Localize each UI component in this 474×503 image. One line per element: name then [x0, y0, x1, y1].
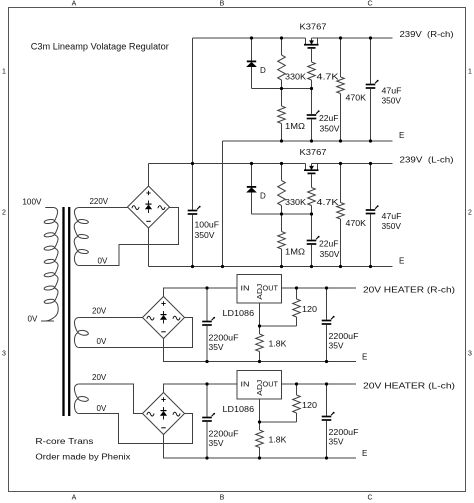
label 47uF 350V [382, 212, 402, 231]
resistor 120 (OUT to ADJ) [293, 288, 301, 326]
svg-text:470K: 470K [346, 94, 367, 103]
svg-text:IN: IN [241, 284, 250, 293]
resistor 470K [337, 38, 345, 141]
svg-text:D: D [260, 192, 266, 201]
svg-text:120: 120 [302, 401, 318, 410]
label 22uF 350V [319, 114, 340, 134]
svg-text:350V: 350V [382, 222, 402, 231]
svg-text:B: B [220, 495, 225, 502]
svg-text:E: E [399, 131, 404, 140]
node 239V (R-ch) rail (top, y=38) [193, 37, 393, 39]
svg-text:100uF: 100uF [195, 221, 220, 230]
svg-text:330K: 330K [285, 198, 307, 207]
svg-text:A: A [72, 1, 77, 8]
wire gate divider node [252, 213, 312, 215]
svg-text:1MΩ: 1MΩ [285, 122, 305, 131]
svg-text:1MΩ: 1MΩ [285, 248, 305, 257]
junction dots [250, 36, 372, 142]
label 2200uF 35V (output) [329, 332, 359, 351]
capacitor 2200uF 35V output (R-ch heater) [322, 288, 335, 362]
bridge rectifier heater L-ch [143, 393, 185, 435]
wire E drop from R-ch section to ground rail [222, 141, 224, 267]
svg-text:120: 120 [302, 305, 318, 314]
transformer core [64, 207, 70, 416]
svg-text:1.8K: 1.8K [269, 340, 288, 349]
junction dots (heater section) [205, 382, 328, 459]
svg-text:0V: 0V [97, 404, 107, 413]
label 2200uF 35V (output) [329, 428, 359, 447]
svg-text:0V: 0V [98, 257, 108, 266]
transformer secondary 20V winding (R-ch heater) [74, 318, 88, 348]
wire 20V lead into bridge (R heater) [78, 317, 142, 319]
svg-text:C: C [367, 1, 372, 8]
svg-text:OUT: OUT [263, 284, 279, 293]
svg-text:2: 2 [2, 210, 6, 217]
transformer secondary 20V winding (L-ch heater) [74, 384, 88, 414]
resistor 330K [278, 164, 286, 215]
capacitor 22uF 350V [307, 89, 320, 142]
node 239V (L-ch) rail (top, y=163.5) [149, 163, 393, 165]
wire 220V 0V return to bridge B1 right vertex [78, 208, 178, 266]
svg-text:Order made by Phenix: Order made by Phenix [35, 452, 130, 461]
svg-text:1.8K: 1.8K [269, 436, 288, 445]
svg-text:350V: 350V [320, 125, 341, 134]
wire ADJ node to 120 resistor [260, 325, 297, 327]
resistor 1M&#937; [278, 214, 286, 267]
svg-text:2200uF: 2200uF [329, 332, 359, 341]
wire gate divider node [252, 88, 312, 90]
svg-text:4.7K: 4.7K [317, 198, 340, 207]
capacitor 2200uF 35V input (L-ch heater) [202, 384, 215, 458]
svg-text:LD1086: LD1086 [223, 309, 255, 318]
svg-text:350V: 350V [320, 250, 341, 259]
label 2200uF 35V (input) [209, 430, 239, 449]
svg-text:4.7K: 4.7K [317, 73, 340, 82]
resistor 1.8K (ADJ to E) [256, 422, 264, 458]
svg-text:3: 3 [468, 351, 472, 358]
capacitor 2200uF 35V output (L-ch heater) [322, 384, 335, 458]
capacitor 47uF 350V [366, 164, 379, 267]
transformer secondary 220V winding [74, 208, 88, 266]
label 2200uF 35V (input) [209, 334, 239, 353]
capacitor 100uF 350V reservoir [188, 164, 201, 267]
svg-text:239V (L-ch): 239V (L-ch) [400, 156, 454, 165]
svg-text:E: E [362, 353, 367, 362]
svg-text:C: C [367, 495, 372, 502]
svg-text:K3767: K3767 [300, 23, 328, 32]
svg-text:2200uF: 2200uF [209, 430, 239, 439]
transformer primary winding 100V-0V [41, 208, 58, 322]
resistor 4.7K (gate) [308, 188, 316, 215]
bridge rectifier heater R-ch [143, 297, 185, 339]
svg-text:350V: 350V [195, 231, 216, 240]
wire 20V lead into bridge (L heater) [78, 384, 142, 414]
wire heater ground rail (R-ch) [164, 339, 357, 362]
svg-text:0V: 0V [97, 337, 107, 346]
transistor Q K3767 (N-ch MOSFET, series pass) [304, 38, 319, 62]
wire 220V lead to bridge [78, 207, 127, 209]
svg-text:20V HEATER (L-ch): 20V HEATER (L-ch) [363, 382, 455, 391]
svg-text:C3m Lineamp Volatage Regulator: C3m Lineamp Volatage Regulator [31, 42, 169, 52]
wire unregulated B+ feed (bridge to both rails) [192, 38, 194, 164]
capacitor 22uF 350V [307, 214, 320, 267]
svg-text:LD1086: LD1086 [223, 405, 255, 414]
diode D (cathode up) [247, 38, 256, 89]
resistor 1M&#937; [278, 89, 286, 142]
wire ADJ lead [259, 303, 261, 326]
svg-text:2200uF: 2200uF [209, 334, 239, 343]
svg-text:R-core Trans: R-core Trans [35, 437, 93, 446]
wire bridge + to regulator IN (L-ch heater) [164, 384, 238, 393]
svg-text:47uF: 47uF [382, 87, 402, 96]
svg-text:B: B [220, 1, 225, 8]
junction dots [191, 162, 372, 268]
svg-text:35V: 35V [329, 342, 345, 351]
svg-text:22uF: 22uF [319, 240, 339, 249]
wire heater ground rail (L-ch) [164, 435, 357, 459]
svg-text:35V: 35V [209, 439, 225, 448]
label 47uF 350V [382, 87, 402, 106]
wire E rail (R-ch HV section) [223, 140, 393, 142]
regulator U LD1086 (L-ch heater) [237, 371, 282, 400]
svg-text:2: 2 [468, 210, 472, 217]
wire bridge B1 + output up to B+ node [148, 164, 150, 187]
svg-text:E: E [399, 257, 404, 266]
resistor 120 (OUT to ADJ) [293, 384, 301, 422]
svg-text:239V (R-ch): 239V (R-ch) [400, 30, 454, 39]
svg-text:OUT: OUT [263, 380, 279, 389]
svg-text:IN: IN [241, 380, 250, 389]
svg-text:20V: 20V [92, 373, 107, 382]
svg-text:1: 1 [468, 69, 472, 76]
svg-text:100V: 100V [22, 197, 42, 206]
wire E rail (L-ch HV section) [149, 266, 393, 268]
svg-text:47uF: 47uF [382, 212, 402, 221]
svg-text:20V HEATER (R-ch): 20V HEATER (R-ch) [363, 286, 455, 295]
svg-text:350V: 350V [382, 97, 402, 106]
label 100uF 350V [195, 221, 220, 241]
transistor Q K3767 (N-ch MOSFET, series pass) [304, 164, 319, 188]
svg-text:ADJ: ADJ [255, 380, 264, 396]
label 22uF 350V [319, 240, 340, 260]
wire 0V return under bridge to right vertex (R heater) [78, 318, 192, 348]
wire OUT rail (L-ch heater) [282, 383, 357, 385]
resistor 4.7K (gate) [308, 62, 316, 89]
capacitor 2200uF 35V input (R-ch heater) [202, 288, 215, 362]
svg-text:3: 3 [2, 351, 6, 358]
svg-text:D: D [260, 66, 266, 75]
wire OUT rail (R-ch heater) [282, 287, 357, 289]
wire ADJ node to 120 resistor [260, 421, 297, 423]
resistor 470K [337, 164, 345, 267]
svg-text:35V: 35V [329, 438, 345, 447]
svg-text:330K: 330K [285, 73, 307, 82]
svg-text:K3767: K3767 [300, 148, 328, 157]
wire ADJ lead [259, 399, 261, 422]
svg-text:1: 1 [2, 69, 6, 76]
regulator U LD1086 (R-ch heater) [237, 275, 282, 304]
svg-text:35V: 35V [209, 343, 225, 352]
resistor 1.8K (ADJ to E) [256, 326, 264, 362]
wire 0V return under bridge to right vertex (L heater) [78, 414, 192, 444]
svg-text:A: A [72, 495, 77, 502]
svg-text:220V: 220V [90, 197, 109, 206]
wire bridge B1 - to HV ground rail [148, 228, 150, 267]
diode D (cathode up) [247, 164, 256, 215]
svg-text:0V: 0V [28, 314, 38, 323]
capacitor 47uF 350V [366, 38, 379, 141]
junction dots (heater section) [205, 286, 328, 363]
wire bridge + to regulator IN (R-ch heater) [164, 288, 238, 297]
bridge rectifier B1 (HV) [128, 186, 170, 228]
svg-text:470K: 470K [346, 219, 367, 228]
svg-text:22uF: 22uF [319, 114, 339, 123]
svg-text:ADJ: ADJ [255, 284, 264, 300]
svg-text:2200uF: 2200uF [329, 428, 359, 437]
svg-text:20V: 20V [92, 307, 107, 316]
svg-text:E: E [362, 449, 367, 458]
resistor 330K [278, 38, 286, 89]
